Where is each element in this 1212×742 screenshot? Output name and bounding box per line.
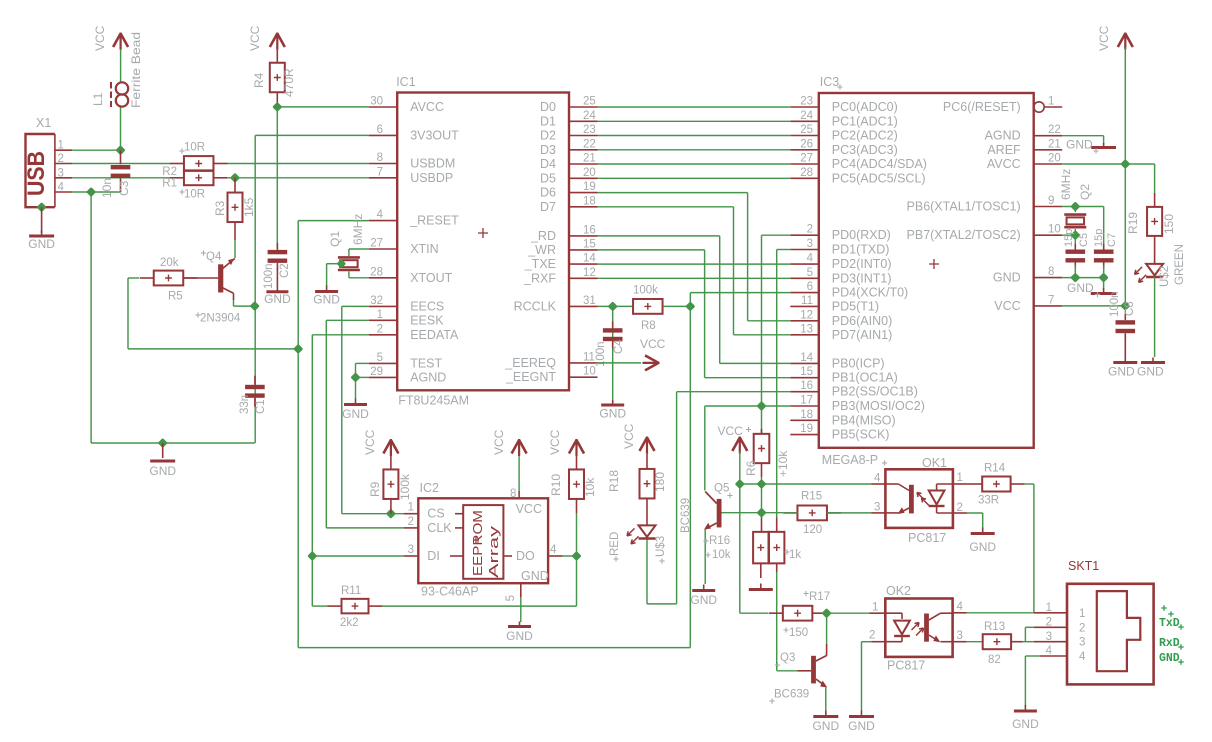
svg-text:PD6(AIN0): PD6(AIN0) bbox=[832, 314, 892, 328]
svg-text:6: 6 bbox=[807, 281, 813, 293]
svg-text:D3: D3 bbox=[540, 143, 556, 157]
svg-text:TxD: TxD bbox=[1159, 617, 1180, 630]
svg-text:_EEREQ: _EEREQ bbox=[504, 356, 556, 370]
svg-text:AGND: AGND bbox=[985, 129, 1021, 143]
svg-text:8: 8 bbox=[510, 488, 516, 500]
svg-text:4: 4 bbox=[807, 253, 814, 265]
svg-text:20k: 20k bbox=[160, 257, 179, 269]
svg-text:3: 3 bbox=[957, 630, 963, 642]
svg-text:15: 15 bbox=[800, 366, 813, 378]
svg-text:R16: R16 bbox=[709, 535, 730, 547]
svg-text:+10k: +10k bbox=[776, 450, 790, 477]
svg-text:EECS: EECS bbox=[410, 299, 444, 313]
svg-text:FT8U245AM: FT8U245AM bbox=[398, 394, 469, 408]
svg-text:R6: R6 bbox=[744, 460, 758, 476]
svg-text:VCC: VCC bbox=[718, 424, 744, 438]
svg-text:4: 4 bbox=[957, 601, 964, 613]
svg-text:AVCC: AVCC bbox=[987, 157, 1021, 171]
svg-text:19: 19 bbox=[583, 181, 596, 193]
svg-text:D4: D4 bbox=[540, 157, 556, 171]
svg-text:11: 11 bbox=[801, 295, 813, 307]
svg-text:L1: L1 bbox=[91, 92, 105, 106]
svg-text:IC2: IC2 bbox=[420, 481, 440, 495]
svg-text:USBDP: USBDP bbox=[410, 171, 453, 185]
svg-text:D0: D0 bbox=[540, 100, 556, 114]
svg-text:CS: CS bbox=[427, 507, 444, 521]
svg-text:D5: D5 bbox=[540, 171, 556, 185]
svg-text:EESK: EESK bbox=[410, 313, 444, 327]
svg-text:PC817: PC817 bbox=[887, 659, 925, 673]
svg-text:PD0(RXD): PD0(RXD) bbox=[832, 228, 891, 242]
svg-text:Q1: Q1 bbox=[328, 231, 342, 247]
svg-text:1k5: 1k5 bbox=[242, 197, 256, 217]
svg-text:13: 13 bbox=[800, 323, 813, 335]
svg-text:GREEN: GREEN bbox=[1174, 244, 1186, 285]
svg-text:R19: R19 bbox=[1126, 212, 1140, 234]
svg-text:27: 27 bbox=[370, 238, 383, 250]
svg-text:22: 22 bbox=[1048, 124, 1061, 136]
svg-text:33R: 33R bbox=[978, 495, 999, 507]
svg-text:_RESET: _RESET bbox=[409, 214, 459, 228]
svg-text:GND: GND bbox=[28, 237, 55, 251]
svg-text:C7: C7 bbox=[1106, 233, 1118, 247]
svg-text:R8: R8 bbox=[641, 320, 656, 332]
svg-text:GND: GND bbox=[264, 292, 291, 306]
svg-text:11: 11 bbox=[583, 351, 595, 363]
svg-text:D7: D7 bbox=[540, 200, 556, 214]
svg-text:BC639: BC639 bbox=[680, 498, 692, 533]
svg-text:PD7(AIN1): PD7(AIN1) bbox=[832, 328, 892, 342]
svg-text:PD1(TXD): PD1(TXD) bbox=[832, 243, 890, 257]
svg-text:GND: GND bbox=[1137, 365, 1164, 379]
svg-text:C1: C1 bbox=[255, 399, 267, 414]
svg-text:VCC: VCC bbox=[548, 429, 562, 455]
svg-text:C5: C5 bbox=[1078, 233, 1090, 247]
svg-text:XTOUT: XTOUT bbox=[410, 271, 452, 285]
svg-text:R4: R4 bbox=[252, 72, 266, 88]
svg-text:PD2(INT0): PD2(INT0) bbox=[832, 257, 892, 271]
svg-text:PD5(T1): PD5(T1) bbox=[832, 299, 879, 313]
svg-text:5: 5 bbox=[505, 595, 517, 601]
svg-text:26: 26 bbox=[800, 138, 813, 150]
svg-text:PC5(ADC5/SCL): PC5(ADC5/SCL) bbox=[832, 171, 926, 185]
svg-text:GND: GND bbox=[313, 293, 340, 307]
svg-text:GND: GND bbox=[1159, 652, 1180, 665]
svg-text:30: 30 bbox=[370, 96, 383, 108]
svg-text:1: 1 bbox=[408, 502, 414, 514]
svg-text:R11: R11 bbox=[341, 585, 361, 597]
svg-text:GND: GND bbox=[1067, 281, 1094, 295]
svg-text:VCC: VCC bbox=[622, 423, 636, 449]
svg-text:PD4(XCK/T0): PD4(XCK/T0) bbox=[832, 286, 908, 300]
svg-text:AGND: AGND bbox=[410, 370, 446, 384]
svg-text:Q3: Q3 bbox=[780, 652, 795, 664]
svg-text:_RXF: _RXF bbox=[523, 271, 556, 285]
svg-text:5: 5 bbox=[377, 352, 383, 364]
svg-text:20: 20 bbox=[583, 167, 596, 179]
svg-text:10: 10 bbox=[583, 366, 596, 378]
svg-text:PB6(XTAL1/TOSC1): PB6(XTAL1/TOSC1) bbox=[907, 200, 1021, 214]
svg-text:PC817: PC817 bbox=[908, 531, 946, 545]
svg-text:IC3: IC3 bbox=[820, 75, 840, 89]
svg-text:AVCC: AVCC bbox=[410, 100, 444, 114]
svg-text:1: 1 bbox=[1048, 96, 1054, 108]
svg-text:Q4: Q4 bbox=[206, 251, 222, 263]
svg-text:2: 2 bbox=[58, 153, 64, 165]
svg-text:OK1: OK1 bbox=[922, 456, 947, 470]
svg-text:GND: GND bbox=[342, 407, 369, 421]
svg-text:31: 31 bbox=[583, 295, 596, 307]
svg-text:24: 24 bbox=[583, 110, 596, 122]
svg-text:RCCLK: RCCLK bbox=[514, 299, 557, 313]
svg-text:3: 3 bbox=[58, 167, 64, 179]
svg-text:D6: D6 bbox=[540, 186, 556, 200]
svg-text:4: 4 bbox=[550, 544, 557, 556]
svg-text:C2: C2 bbox=[279, 263, 291, 278]
svg-text:7: 7 bbox=[377, 166, 383, 178]
svg-text:2: 2 bbox=[408, 516, 414, 528]
svg-text:19: 19 bbox=[800, 423, 813, 435]
svg-text:GND: GND bbox=[599, 407, 626, 421]
svg-text:22: 22 bbox=[583, 138, 596, 150]
svg-text:100n: 100n bbox=[263, 263, 275, 289]
svg-text:14: 14 bbox=[800, 352, 813, 364]
svg-text:23: 23 bbox=[583, 124, 596, 136]
svg-text:93-C46AP: 93-C46AP bbox=[421, 585, 479, 599]
svg-text:GND: GND bbox=[969, 540, 996, 554]
svg-text:14: 14 bbox=[583, 253, 596, 265]
svg-text:180: 180 bbox=[653, 472, 667, 492]
svg-text:R18: R18 bbox=[607, 470, 621, 492]
svg-text:25: 25 bbox=[800, 124, 813, 136]
svg-text:PB5(SCK): PB5(SCK) bbox=[832, 428, 890, 442]
svg-text:9: 9 bbox=[1048, 195, 1054, 207]
svg-text:2: 2 bbox=[957, 502, 963, 514]
svg-text:20: 20 bbox=[1048, 153, 1061, 165]
svg-text:24: 24 bbox=[800, 110, 813, 122]
svg-text:Ferrite Bead: Ferrite Bead bbox=[129, 32, 143, 108]
svg-text:VCC: VCC bbox=[93, 25, 107, 51]
svg-text:BC639: BC639 bbox=[774, 689, 809, 701]
svg-text:VCC: VCC bbox=[248, 25, 262, 51]
svg-text:R1: R1 bbox=[162, 178, 177, 190]
svg-text:_TXE: _TXE bbox=[524, 257, 556, 271]
svg-text:470R: 470R bbox=[282, 68, 296, 97]
svg-text:3: 3 bbox=[408, 544, 414, 556]
svg-text:R2: R2 bbox=[162, 166, 177, 178]
svg-text:3V3OUT: 3V3OUT bbox=[410, 128, 459, 142]
svg-text:VCC: VCC bbox=[994, 299, 1020, 313]
svg-text:12: 12 bbox=[800, 309, 813, 321]
svg-text:OK2: OK2 bbox=[886, 584, 911, 598]
svg-text:2: 2 bbox=[377, 323, 383, 335]
svg-text:PB3(MOSI/OC2): PB3(MOSI/OC2) bbox=[832, 399, 925, 413]
svg-text:EEDATA: EEDATA bbox=[410, 328, 459, 342]
svg-text:VCC: VCC bbox=[516, 502, 542, 516]
svg-text:150: 150 bbox=[789, 627, 808, 639]
svg-text:CLK: CLK bbox=[427, 521, 452, 535]
svg-text:VCC: VCC bbox=[492, 429, 506, 455]
svg-text:RxD: RxD bbox=[1159, 637, 1180, 650]
svg-text:GND: GND bbox=[1108, 365, 1135, 379]
svg-text:PB2(SS/OC1B): PB2(SS/OC1B) bbox=[832, 385, 918, 399]
svg-text:VCC: VCC bbox=[640, 337, 666, 351]
svg-text:4: 4 bbox=[58, 182, 65, 194]
svg-text:Array: Array bbox=[487, 525, 501, 578]
svg-text:PC3(ADC3): PC3(ADC3) bbox=[832, 143, 898, 157]
svg-text:100k: 100k bbox=[633, 285, 658, 297]
svg-text:U$3: U$3 bbox=[655, 536, 667, 557]
svg-text:1: 1 bbox=[58, 140, 64, 152]
svg-text:15: 15 bbox=[583, 238, 596, 250]
svg-text:2N3904: 2N3904 bbox=[200, 313, 241, 325]
svg-text:6MHz: 6MHz bbox=[1059, 169, 1073, 200]
svg-text:33n: 33n bbox=[239, 395, 251, 414]
svg-text:2: 2 bbox=[807, 224, 813, 236]
svg-text:16: 16 bbox=[583, 224, 596, 236]
svg-text:32: 32 bbox=[370, 295, 383, 307]
svg-text:120: 120 bbox=[803, 524, 822, 536]
svg-text:_EEGNT: _EEGNT bbox=[505, 370, 556, 384]
svg-text:PB7(XTAL2/TOSC2): PB7(XTAL2/TOSC2) bbox=[907, 228, 1021, 242]
svg-text:16: 16 bbox=[800, 380, 813, 392]
svg-text:6: 6 bbox=[377, 124, 383, 136]
svg-text:23: 23 bbox=[800, 96, 813, 108]
svg-text:GND: GND bbox=[1012, 717, 1039, 731]
svg-text:18: 18 bbox=[583, 195, 596, 207]
svg-text:1k: 1k bbox=[789, 549, 801, 561]
svg-text:USB: USB bbox=[23, 151, 50, 196]
svg-text:6MHz: 6MHz bbox=[351, 214, 365, 245]
svg-text:100n: 100n bbox=[1109, 291, 1121, 317]
svg-text:R3: R3 bbox=[213, 200, 227, 216]
svg-text:GND: GND bbox=[993, 271, 1021, 285]
svg-text:17: 17 bbox=[800, 395, 813, 407]
svg-text:150: 150 bbox=[1162, 214, 1176, 234]
svg-text:R5: R5 bbox=[168, 291, 183, 303]
svg-text:1: 1 bbox=[957, 472, 963, 484]
svg-text:R10: R10 bbox=[549, 474, 563, 496]
svg-text:PB1(OC1A): PB1(OC1A) bbox=[832, 371, 898, 385]
svg-text:21: 21 bbox=[583, 153, 596, 165]
svg-text:D1: D1 bbox=[540, 114, 556, 128]
svg-text:2: 2 bbox=[1079, 622, 1085, 634]
svg-text:U$2: U$2 bbox=[1159, 266, 1171, 287]
svg-text:10R: 10R bbox=[184, 142, 205, 154]
svg-text:82: 82 bbox=[988, 654, 1001, 666]
svg-text:3: 3 bbox=[1046, 631, 1052, 643]
svg-text:100k: 100k bbox=[398, 473, 412, 500]
svg-text:8: 8 bbox=[377, 152, 383, 164]
svg-text:10R: 10R bbox=[184, 189, 205, 201]
svg-text:C8: C8 bbox=[1124, 301, 1136, 316]
svg-text:5: 5 bbox=[807, 267, 813, 279]
svg-text:_RD: _RD bbox=[530, 229, 556, 243]
svg-text:4: 4 bbox=[1046, 645, 1053, 657]
svg-text:MEGA8-P: MEGA8-P bbox=[822, 453, 878, 467]
svg-text:18: 18 bbox=[800, 409, 813, 421]
svg-text:XTIN: XTIN bbox=[410, 242, 438, 256]
svg-text:GND: GND bbox=[812, 719, 839, 733]
svg-text:R17: R17 bbox=[809, 591, 830, 603]
svg-text:GND: GND bbox=[848, 719, 875, 733]
svg-text:29: 29 bbox=[370, 366, 383, 378]
svg-text:3: 3 bbox=[807, 238, 813, 250]
svg-text:21: 21 bbox=[1048, 138, 1061, 150]
svg-text:GND: GND bbox=[521, 569, 549, 583]
svg-text:R9: R9 bbox=[368, 481, 382, 497]
svg-text:10k: 10k bbox=[583, 477, 597, 497]
svg-text:3: 3 bbox=[1079, 637, 1085, 649]
svg-text:15p: 15p bbox=[1093, 229, 1105, 247]
svg-text:R15: R15 bbox=[801, 491, 822, 503]
svg-text:X1: X1 bbox=[36, 116, 51, 130]
svg-text:EEPROM: EEPROM bbox=[471, 510, 485, 576]
svg-text:AREF: AREF bbox=[987, 143, 1021, 157]
svg-text:28: 28 bbox=[800, 167, 813, 179]
svg-text:25: 25 bbox=[583, 96, 596, 108]
svg-text:GND: GND bbox=[506, 629, 533, 643]
svg-text:1: 1 bbox=[377, 309, 383, 321]
svg-text:7: 7 bbox=[1048, 294, 1054, 306]
svg-text:PB0(ICP): PB0(ICP) bbox=[832, 356, 885, 370]
svg-text:IC1: IC1 bbox=[396, 75, 416, 89]
svg-text:PC6(/RESET): PC6(/RESET) bbox=[943, 100, 1021, 114]
svg-text:2: 2 bbox=[1046, 617, 1052, 629]
svg-text:10k: 10k bbox=[712, 549, 731, 561]
svg-text:DI: DI bbox=[427, 549, 440, 563]
svg-text:15p: 15p bbox=[1063, 229, 1075, 247]
svg-text:PC4(ADC4/SDA): PC4(ADC4/SDA) bbox=[832, 157, 927, 171]
svg-text:PC0(ADC0): PC0(ADC0) bbox=[832, 100, 898, 114]
svg-text:SKT1: SKT1 bbox=[1068, 559, 1099, 573]
svg-text:8: 8 bbox=[1048, 266, 1054, 278]
svg-text:TEST: TEST bbox=[410, 356, 442, 370]
svg-text:1: 1 bbox=[1079, 608, 1085, 620]
svg-text:4: 4 bbox=[377, 209, 384, 221]
svg-text:4: 4 bbox=[1079, 651, 1086, 663]
svg-text:12: 12 bbox=[583, 267, 596, 279]
svg-text:PD3(INT1): PD3(INT1) bbox=[832, 271, 892, 285]
svg-text:28: 28 bbox=[370, 266, 383, 278]
svg-text:R14: R14 bbox=[984, 463, 1006, 475]
svg-text:C3: C3 bbox=[117, 180, 131, 196]
svg-text:VCC: VCC bbox=[1097, 25, 1111, 51]
svg-text:RED: RED bbox=[609, 532, 621, 556]
svg-text:10n: 10n bbox=[100, 178, 114, 198]
svg-text:4: 4 bbox=[874, 473, 881, 485]
svg-text:27: 27 bbox=[800, 153, 813, 165]
svg-text:PB4(MISO): PB4(MISO) bbox=[832, 413, 896, 427]
svg-text:PC1(ADC1): PC1(ADC1) bbox=[832, 114, 898, 128]
svg-text:_WR: _WR bbox=[527, 243, 556, 257]
svg-text:GND: GND bbox=[690, 593, 717, 607]
svg-text:USBDM: USBDM bbox=[410, 157, 455, 171]
svg-text:2k2: 2k2 bbox=[340, 617, 359, 629]
svg-text:PC2(ADC2): PC2(ADC2) bbox=[832, 129, 898, 143]
svg-text:10: 10 bbox=[1048, 224, 1061, 236]
svg-text:Q5: Q5 bbox=[714, 483, 729, 495]
svg-text:2: 2 bbox=[869, 630, 875, 642]
svg-text:Q2: Q2 bbox=[1078, 184, 1092, 200]
svg-text:VCC: VCC bbox=[363, 429, 377, 455]
svg-text:D2: D2 bbox=[540, 129, 556, 143]
svg-text:GND: GND bbox=[1066, 138, 1093, 152]
svg-text:DO: DO bbox=[516, 549, 535, 563]
svg-text:1: 1 bbox=[1046, 602, 1052, 614]
svg-text:1: 1 bbox=[872, 602, 878, 614]
svg-text:3: 3 bbox=[874, 502, 880, 514]
svg-text:GND: GND bbox=[149, 464, 176, 478]
svg-text:R13: R13 bbox=[984, 621, 1005, 633]
svg-text:C4: C4 bbox=[613, 339, 625, 354]
